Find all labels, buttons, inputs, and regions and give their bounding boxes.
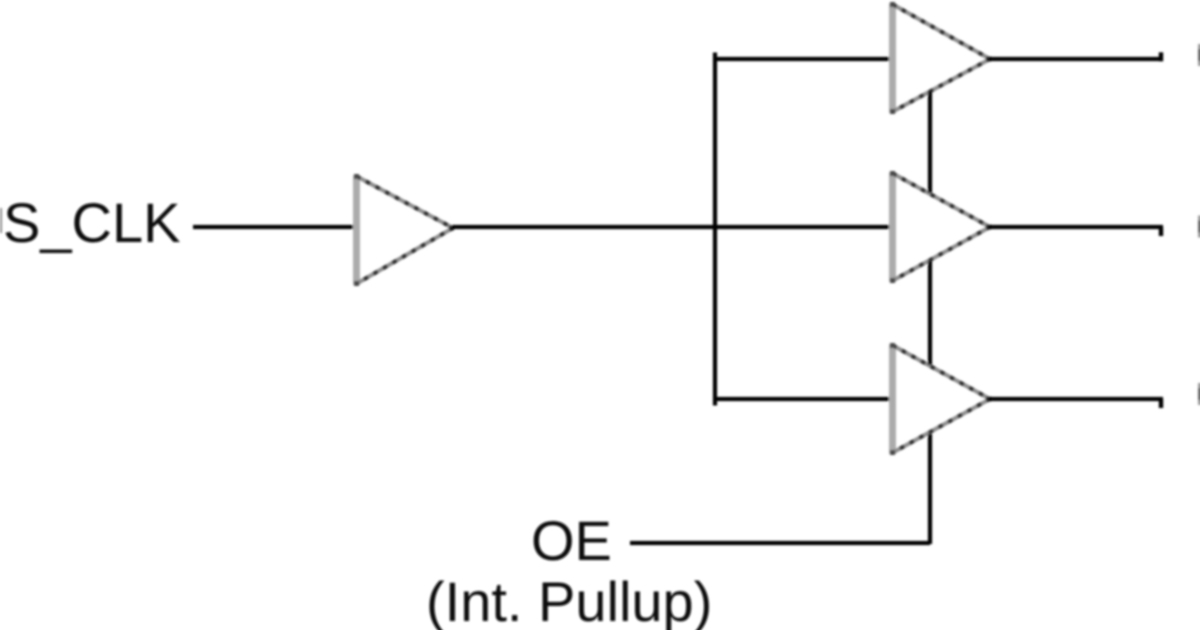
wire: OE enable segment U2 to U3 <box>928 91 932 193</box>
wire: cut-off letter sliver at left edge <box>0 208 2 233</box>
wire: S_CLK input to buffer U1 <box>193 225 356 229</box>
buffer U2 (CLK output, top) <box>890 2 991 114</box>
node: cut-off output label (top) <box>1198 44 1200 66</box>
wire: OE enable segment U3 to U4 <box>928 261 932 365</box>
wire: bus to buffer U4 input (bottom branch) <box>715 397 893 401</box>
wire: buffer U1 output to bus node <box>452 225 717 229</box>
buffer U3 (CLK output, middle) <box>890 171 991 283</box>
wire: bottom output end tick <box>1159 399 1163 408</box>
buffer U1 (input buffer) <box>354 174 454 286</box>
wire: middle output end tick <box>1159 227 1163 236</box>
wire: bus to buffer U2 input (top branch) <box>715 57 893 61</box>
wire: buffer U3 output (middle) <box>989 225 1163 229</box>
svg-text:(Int. Pullup): (Int. Pullup) <box>426 570 712 630</box>
buffer U4 (CLK output, bottom) <box>890 343 991 455</box>
wire: buffer U4 output (bottom) <box>989 397 1163 401</box>
svg-text:OE: OE <box>531 509 612 572</box>
wire: bus to buffer U3 input (middle branch) <box>715 225 893 229</box>
wire: vertical distribution bus <box>713 53 717 406</box>
wire: buffer U2 output (top) <box>989 57 1163 61</box>
wire: top output end tick <box>1159 52 1163 61</box>
svg-text:S_CLK: S_CLK <box>3 191 180 254</box>
wire: OE enable segment U4 down to OE net <box>928 434 932 544</box>
node: cut-off output label (middle) <box>1198 216 1200 238</box>
node: cut-off output label (bottom) <box>1198 383 1200 405</box>
wire: OE horizontal <box>630 541 930 545</box>
